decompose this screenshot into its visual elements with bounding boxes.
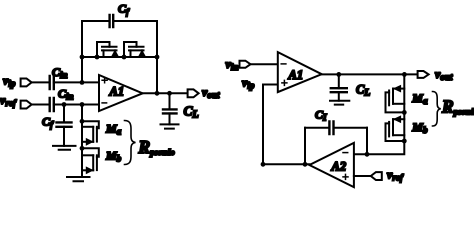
node CL tap (right): [336, 72, 341, 77]
transistor Mb (right circuit): [386, 116, 405, 141]
node feedback tap: [155, 91, 160, 96]
svg-text:CL: CL: [356, 83, 370, 99]
wire to CL (right): [338, 74, 340, 88]
wire A2 plus to vref: [354, 175, 371, 177]
svg-text:Ma: Ma: [105, 122, 122, 137]
svg-text:Cf: Cf: [42, 114, 54, 129]
port vref: [21, 101, 32, 109]
wire pseudo-resistor rail: [82, 56, 157, 58]
wire A2 output: [263, 163, 309, 165]
wire Cin to op-amp minus input: [54, 104, 99, 106]
wire loop right vertical: [156, 21, 158, 93]
node rail-right: [155, 55, 160, 60]
capacitor CI: [329, 122, 333, 135]
capacitor CL (right): [331, 88, 347, 92]
wire vip to Cin: [32, 81, 49, 83]
node A2 minus junction: [365, 152, 370, 157]
capacitor Cin (top): [50, 76, 54, 89]
node Mb bottom junction: [402, 139, 407, 144]
wire Rpseudo rail (right): [354, 74, 404, 154]
wire A1 plus input: [263, 84, 278, 86]
transistor Mb (left circuit): [82, 148, 99, 173]
op-amp A2: [309, 143, 354, 187]
brace Rpseudo (right): [433, 92, 441, 127]
node Cf branch: [62, 102, 67, 107]
node rail-left: [80, 55, 85, 60]
capacitor Cf (shunt): [57, 122, 72, 126]
node Ma gate junction: [80, 119, 85, 124]
ground (Mb): [67, 177, 90, 181]
transistor Ma (left circuit): [82, 121, 99, 145]
wire Cin to op-amp plus input: [54, 81, 99, 83]
node CI-output junction: [303, 162, 308, 167]
wire CL to ground: [169, 113, 171, 124]
wire CI loop left vertical: [304, 128, 306, 165]
wire feedback loop top: [82, 20, 157, 22]
node Ma-Mb junction: [402, 110, 407, 115]
wire vin to A1 minus: [251, 63, 278, 65]
ground (CL right): [330, 101, 349, 105]
svg-text:A2: A2: [331, 159, 347, 173]
brace Rpseudo (left): [125, 121, 136, 165]
node gate M1: [95, 55, 100, 60]
svg-text:Rpseudo: Rpseudo: [138, 137, 175, 157]
wire CI loop right vertical: [366, 128, 368, 155]
svg-text:vref: vref: [0, 93, 17, 108]
svg-text:vout: vout: [435, 67, 453, 82]
svg-text:Cin: Cin: [52, 65, 68, 80]
ground (Cf): [53, 146, 76, 150]
svg-text:Mb: Mb: [411, 120, 428, 135]
svg-text:Cin: Cin: [58, 86, 74, 101]
svg-text:A1: A1: [288, 68, 304, 82]
transistor M2 (feedback pseudo-resistor, right): [124, 42, 145, 57]
wire vip vertical: [262, 85, 264, 165]
node A2 output junction: [261, 162, 266, 167]
node CL tap: [167, 91, 172, 96]
wire A1 output: [322, 73, 418, 75]
node Rpseudo tap: [402, 72, 407, 77]
svg-text:vip: vip: [242, 76, 255, 91]
svg-text:CL: CL: [184, 103, 199, 120]
wire op-amp output: [143, 92, 188, 94]
svg-text:vout: vout: [202, 85, 220, 100]
capacitor Cin (bottom): [50, 98, 54, 111]
op-amp A1 (right): [278, 52, 322, 92]
wire vref to Cin: [32, 104, 49, 106]
wire to CL: [169, 93, 171, 109]
svg-text:A1: A1: [109, 85, 125, 99]
svg-text:Rpseudo: Rpseudo: [441, 97, 474, 117]
node plus input / feedback junction: [80, 80, 85, 85]
port vout (right): [418, 71, 429, 78]
transistor Ma (right circuit): [386, 86, 405, 113]
transistor M1 (feedback pseudo-resistor, left): [97, 42, 118, 57]
wire CI top: [305, 127, 367, 129]
wire to Cf shunt: [63, 105, 65, 123]
svg-text:Ma: Ma: [411, 91, 428, 106]
svg-text:vref: vref: [387, 167, 404, 182]
svg-text:Mb: Mb: [105, 149, 122, 164]
node gate M2: [122, 55, 127, 60]
port vip: [21, 79, 32, 87]
svg-text:Cf: Cf: [118, 2, 130, 17]
ground (CL left): [161, 124, 179, 128]
port vout (left): [188, 89, 199, 97]
svg-text:vin: vin: [226, 57, 239, 72]
node Mb gate junction: [80, 146, 85, 151]
capacitor Cf (top feedback): [110, 15, 114, 27]
capacitor CL (left): [163, 109, 177, 113]
port vref (right, points left): [371, 172, 382, 180]
wire Cf to ground: [63, 127, 65, 146]
wire CL to ground (right): [338, 92, 340, 101]
node Rpseudo branch: [80, 102, 85, 107]
svg-text:vip: vip: [3, 73, 16, 88]
port vin: [240, 61, 251, 68]
wire loop left vertical: [81, 21, 83, 82]
op-amp A1 (left): [99, 75, 143, 111]
svg-text:CI: CI: [315, 108, 327, 123]
wire rail to Ma: [81, 105, 83, 178]
